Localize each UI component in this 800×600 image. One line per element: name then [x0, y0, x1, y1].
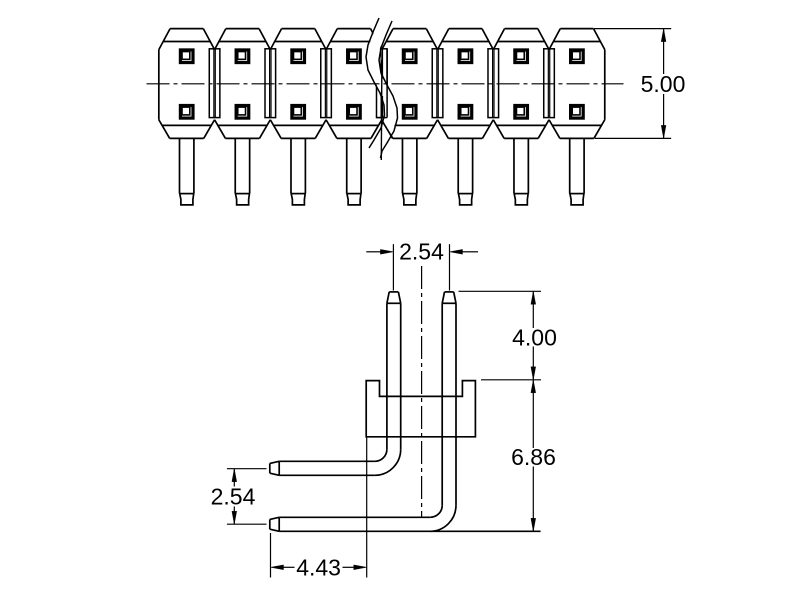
- interface seam between segments 3 and 4: [321, 49, 332, 118]
- interface seam between segments 4 and 5: [377, 49, 388, 118]
- svg-text:2.54: 2.54: [211, 484, 256, 510]
- segment 4 solder tail pin (top view): [347, 138, 362, 205]
- interface seam between segments 2 and 3: [265, 49, 276, 118]
- pin header segment 3 body (top view): [270, 29, 326, 139]
- insulator body (side view): [366, 381, 475, 437]
- pin 2 chamfered tip (side view, back row): [442, 292, 456, 303]
- segment 1 solder tail pin (top view): [179, 138, 194, 205]
- square pin contact 3 bottom row (top view): [292, 106, 305, 119]
- pin header segment 6 body (top view): [438, 29, 494, 139]
- segment 7 solder tail pin (top view): [514, 138, 529, 205]
- interface seam between segments 5 and 6: [432, 49, 443, 118]
- interface seam between segments 1 and 2: [209, 49, 220, 118]
- break symbol white-out band: [367, 18, 397, 158]
- square pin contact 6 bottom row (top view): [459, 106, 472, 119]
- break line right (freehand S-curve): [379, 21, 398, 158]
- pin 1 chamfered tip (side view, front row): [387, 292, 401, 303]
- svg-text:4.43: 4.43: [296, 554, 341, 580]
- segment 8 solder tail pin (top view): [570, 138, 585, 205]
- square pin contact 3 top row (top view): [292, 50, 305, 63]
- pin header segment 1 body (top view): [159, 29, 215, 139]
- svg-text:5.00: 5.00: [641, 71, 686, 97]
- svg-text:4.00: 4.00: [512, 324, 557, 350]
- square pin contact 2 bottom row (top view): [236, 106, 249, 119]
- dimension 6.86 lines and arrows: [531, 380, 536, 532]
- segment 6 solder tail pin (top view): [458, 138, 473, 205]
- dimension 2.54 (pin pitch, top of side view) lines and arrows: [366, 244, 478, 290]
- segment 1 left edge: [158, 50, 160, 120]
- square pin contact 4 bottom row (top view): [348, 106, 361, 119]
- pin 1 right-angle lead (side view): [270, 303, 401, 475]
- square pin contact 8 top row (top view): [571, 50, 584, 63]
- dimension 5.00 lines and arrows: [594, 29, 671, 139]
- svg-text:6.86: 6.86: [511, 444, 556, 470]
- square pin contact 8 bottom row (top view): [571, 106, 584, 119]
- square pin contact 5 bottom row (top view): [403, 106, 416, 119]
- square pin contact 6 top row (top view): [459, 50, 472, 63]
- interface seam between segments 6 and 7: [488, 49, 499, 118]
- segment 5 partial lines at break: [378, 49, 393, 138]
- square pin contact 2 top row (top view): [236, 50, 249, 63]
- break cut straight line: [380, 60, 383, 160]
- segment 2 solder tail pin (top view): [235, 138, 250, 205]
- segment 5 solder tail pin (top view): [402, 138, 417, 205]
- pin 2 right-angle lead (side view): [270, 303, 541, 531]
- interface seam between segments 7 and 8: [544, 49, 555, 118]
- pin header segment 7 body (top view): [493, 29, 549, 139]
- dimension 4.00 lines and arrows: [459, 291, 542, 380]
- dimension 2.54 (row pitch, left of side view) lines and arrows: [227, 469, 267, 525]
- square pin contact 5 top row (top view): [403, 50, 416, 63]
- square pin contact 1 bottom row (top view): [180, 106, 193, 119]
- segment 3 solder tail pin (top view): [291, 138, 306, 205]
- dimension 4.43 lines and arrows: [271, 437, 367, 578]
- square pin contact 4 top row (top view): [348, 50, 361, 63]
- square pin contact 1 top row (top view): [180, 50, 193, 63]
- square pin contact 7 bottom row (top view): [515, 106, 528, 119]
- pin header segment 2 body (top view): [215, 29, 271, 139]
- svg-text:2.54: 2.54: [399, 239, 444, 265]
- segment 8 right edge: [604, 50, 606, 120]
- pin header segment 8 body (top view): [549, 29, 605, 139]
- break line left (freehand S-curve): [366, 18, 385, 148]
- square pin contact 7 top row (top view): [515, 50, 528, 63]
- vertical centerline (side view): [421, 266, 423, 517]
- horizontal centerline (top view): [147, 83, 624, 85]
- pin header segment 4 body (top view): [326, 29, 382, 139]
- pin header segment 5 body (top view): [382, 29, 438, 139]
